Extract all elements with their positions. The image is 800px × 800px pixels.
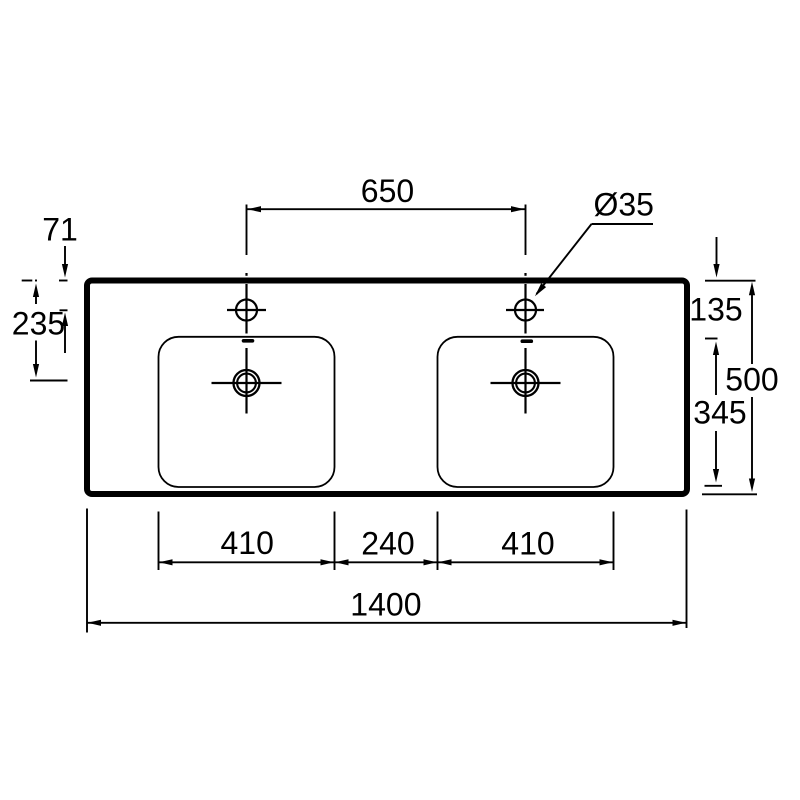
label Ø35 (593, 187, 653, 223)
dimension 135 (705, 237, 756, 395)
basin cutout left (159, 337, 335, 487)
drain left (212, 370, 282, 396)
dimension 410 right (438, 559, 614, 565)
dimension 410 left (159, 559, 334, 565)
faucet hole left (227, 300, 266, 321)
dimension 1400 (88, 620, 687, 626)
svg-text:240: 240 (361, 526, 414, 562)
top edge centerline extension left (22, 280, 37, 282)
dimension 345 (705, 431, 723, 486)
overflow slot left (244, 339, 253, 343)
label 235 (12, 306, 65, 342)
svg-text:500: 500 (725, 362, 778, 398)
extension lines 1400 (87, 509, 687, 633)
label 71 (42, 212, 78, 248)
label 410 right (501, 526, 554, 562)
centerline right (525, 205, 527, 414)
label 345 (693, 395, 746, 431)
dimension 650 (247, 206, 525, 212)
dimension 500 (702, 282, 757, 495)
label 500 (725, 362, 778, 398)
countertop outline (87, 281, 687, 495)
svg-text:71: 71 (42, 212, 78, 248)
extension lines bottom (159, 512, 614, 571)
faucet hole right (506, 300, 544, 321)
svg-text:Ø35: Ø35 (593, 187, 653, 223)
svg-text:410: 410 (221, 525, 274, 561)
svg-text:1400: 1400 (350, 587, 421, 623)
leader Ø35 (535, 224, 653, 296)
svg-text:650: 650 (361, 173, 414, 209)
drain right (491, 370, 561, 396)
dimension 240 (335, 559, 437, 565)
svg-text:235: 235 (12, 306, 65, 342)
dimension 71 (59, 246, 68, 353)
label 135 (689, 292, 742, 328)
svg-text:410: 410 (501, 526, 554, 562)
label 240 (361, 526, 414, 562)
svg-text:135: 135 (689, 292, 742, 328)
label 1400 (350, 587, 421, 623)
centerline left (246, 205, 248, 414)
basin cutout right (438, 337, 614, 487)
label 410 left (221, 525, 274, 561)
svg-text:345: 345 (693, 395, 746, 431)
label 650 (361, 173, 414, 209)
overflow slot right (522, 339, 531, 343)
dimension 235 (30, 284, 68, 381)
